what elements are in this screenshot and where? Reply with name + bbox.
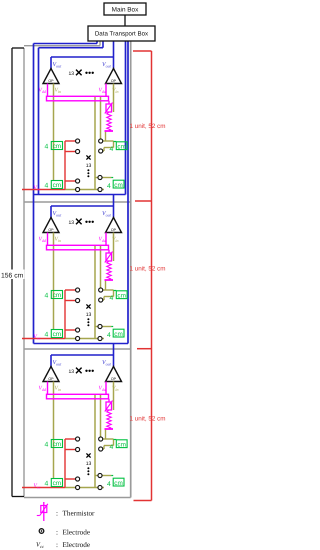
svg-text:OP: OP [48, 228, 54, 232]
svg-text:1 unit, 52 cm: 1 unit, 52 cm [130, 416, 166, 423]
svg-text:cm: cm [114, 480, 123, 487]
svg-text:13: 13 [86, 312, 92, 318]
svg-text:Vin: Vin [55, 237, 62, 244]
svg-text:Vdd: Vdd [39, 386, 47, 393]
svg-text:4: 4 [45, 293, 49, 300]
svg-text:Vin: Vin [55, 88, 62, 95]
svg-text:4: 4 [45, 331, 49, 338]
svg-text:13: 13 [69, 369, 75, 375]
svg-text:Vcc: Vcc [34, 334, 41, 341]
svg-text:OP: OP [48, 79, 54, 83]
svg-text:4: 4 [110, 444, 114, 451]
svg-text:4: 4 [110, 146, 114, 153]
svg-text:Vout: Vout [102, 62, 112, 69]
svg-text:Vin: Vin [55, 386, 62, 393]
svg-text:Vout: Vout [53, 211, 63, 218]
svg-text:4: 4 [45, 182, 49, 189]
svg-text:Vdd: Vdd [39, 237, 47, 244]
svg-text:cm: cm [117, 293, 126, 300]
svg-text:Electrode: Electrode [63, 529, 91, 537]
svg-text:4: 4 [110, 295, 114, 302]
svg-text:Electrode: Electrode [63, 541, 91, 549]
svg-text:cm: cm [53, 292, 62, 299]
svg-text:4: 4 [45, 480, 49, 487]
svg-text:cm: cm [53, 441, 62, 448]
svg-text:4: 4 [107, 332, 111, 339]
svg-text:OP: OP [111, 79, 117, 83]
svg-text:4: 4 [107, 481, 111, 488]
svg-text:4: 4 [45, 442, 49, 449]
svg-text:cm: cm [53, 331, 62, 338]
svg-text:4: 4 [45, 144, 49, 151]
svg-text:cm: cm [117, 144, 126, 151]
svg-text:13: 13 [69, 220, 75, 226]
svg-text:cm: cm [53, 143, 62, 150]
svg-text:1 unit, 52 cm: 1 unit, 52 cm [130, 266, 166, 273]
svg-text:Vout: Vout [102, 360, 112, 367]
svg-text:cm: cm [53, 480, 62, 487]
svg-text::: : [56, 541, 58, 549]
svg-text:Data Transport Box: Data Transport Box [95, 31, 149, 38]
svg-text:Main Box: Main Box [112, 7, 139, 14]
svg-text:Vout: Vout [102, 211, 112, 218]
svg-text:13: 13 [86, 163, 92, 169]
svg-text:OP: OP [111, 228, 117, 232]
svg-text:OP: OP [48, 377, 54, 381]
svg-text:cm: cm [53, 182, 62, 189]
svg-text:4: 4 [107, 183, 111, 190]
svg-text::: : [56, 529, 58, 537]
svg-text::: : [56, 510, 58, 518]
svg-text:Vout: Vout [53, 62, 63, 69]
svg-text:Vdd: Vdd [39, 88, 47, 95]
svg-text:Vout: Vout [53, 360, 63, 367]
svg-text:Vcc: Vcc [34, 185, 41, 192]
svg-text:156 cm: 156 cm [1, 272, 24, 279]
svg-text:cm: cm [117, 442, 126, 449]
svg-text:cm: cm [114, 182, 123, 189]
svg-text:1 unit, 52 cm: 1 unit, 52 cm [130, 123, 166, 130]
svg-text:13: 13 [69, 71, 75, 77]
svg-text:cm: cm [114, 331, 123, 338]
svg-text:Vcc: Vcc [34, 483, 41, 490]
svg-text:13: 13 [86, 461, 92, 467]
svg-text:OP: OP [111, 377, 117, 381]
svg-text:Thermistor: Thermistor [63, 510, 96, 518]
